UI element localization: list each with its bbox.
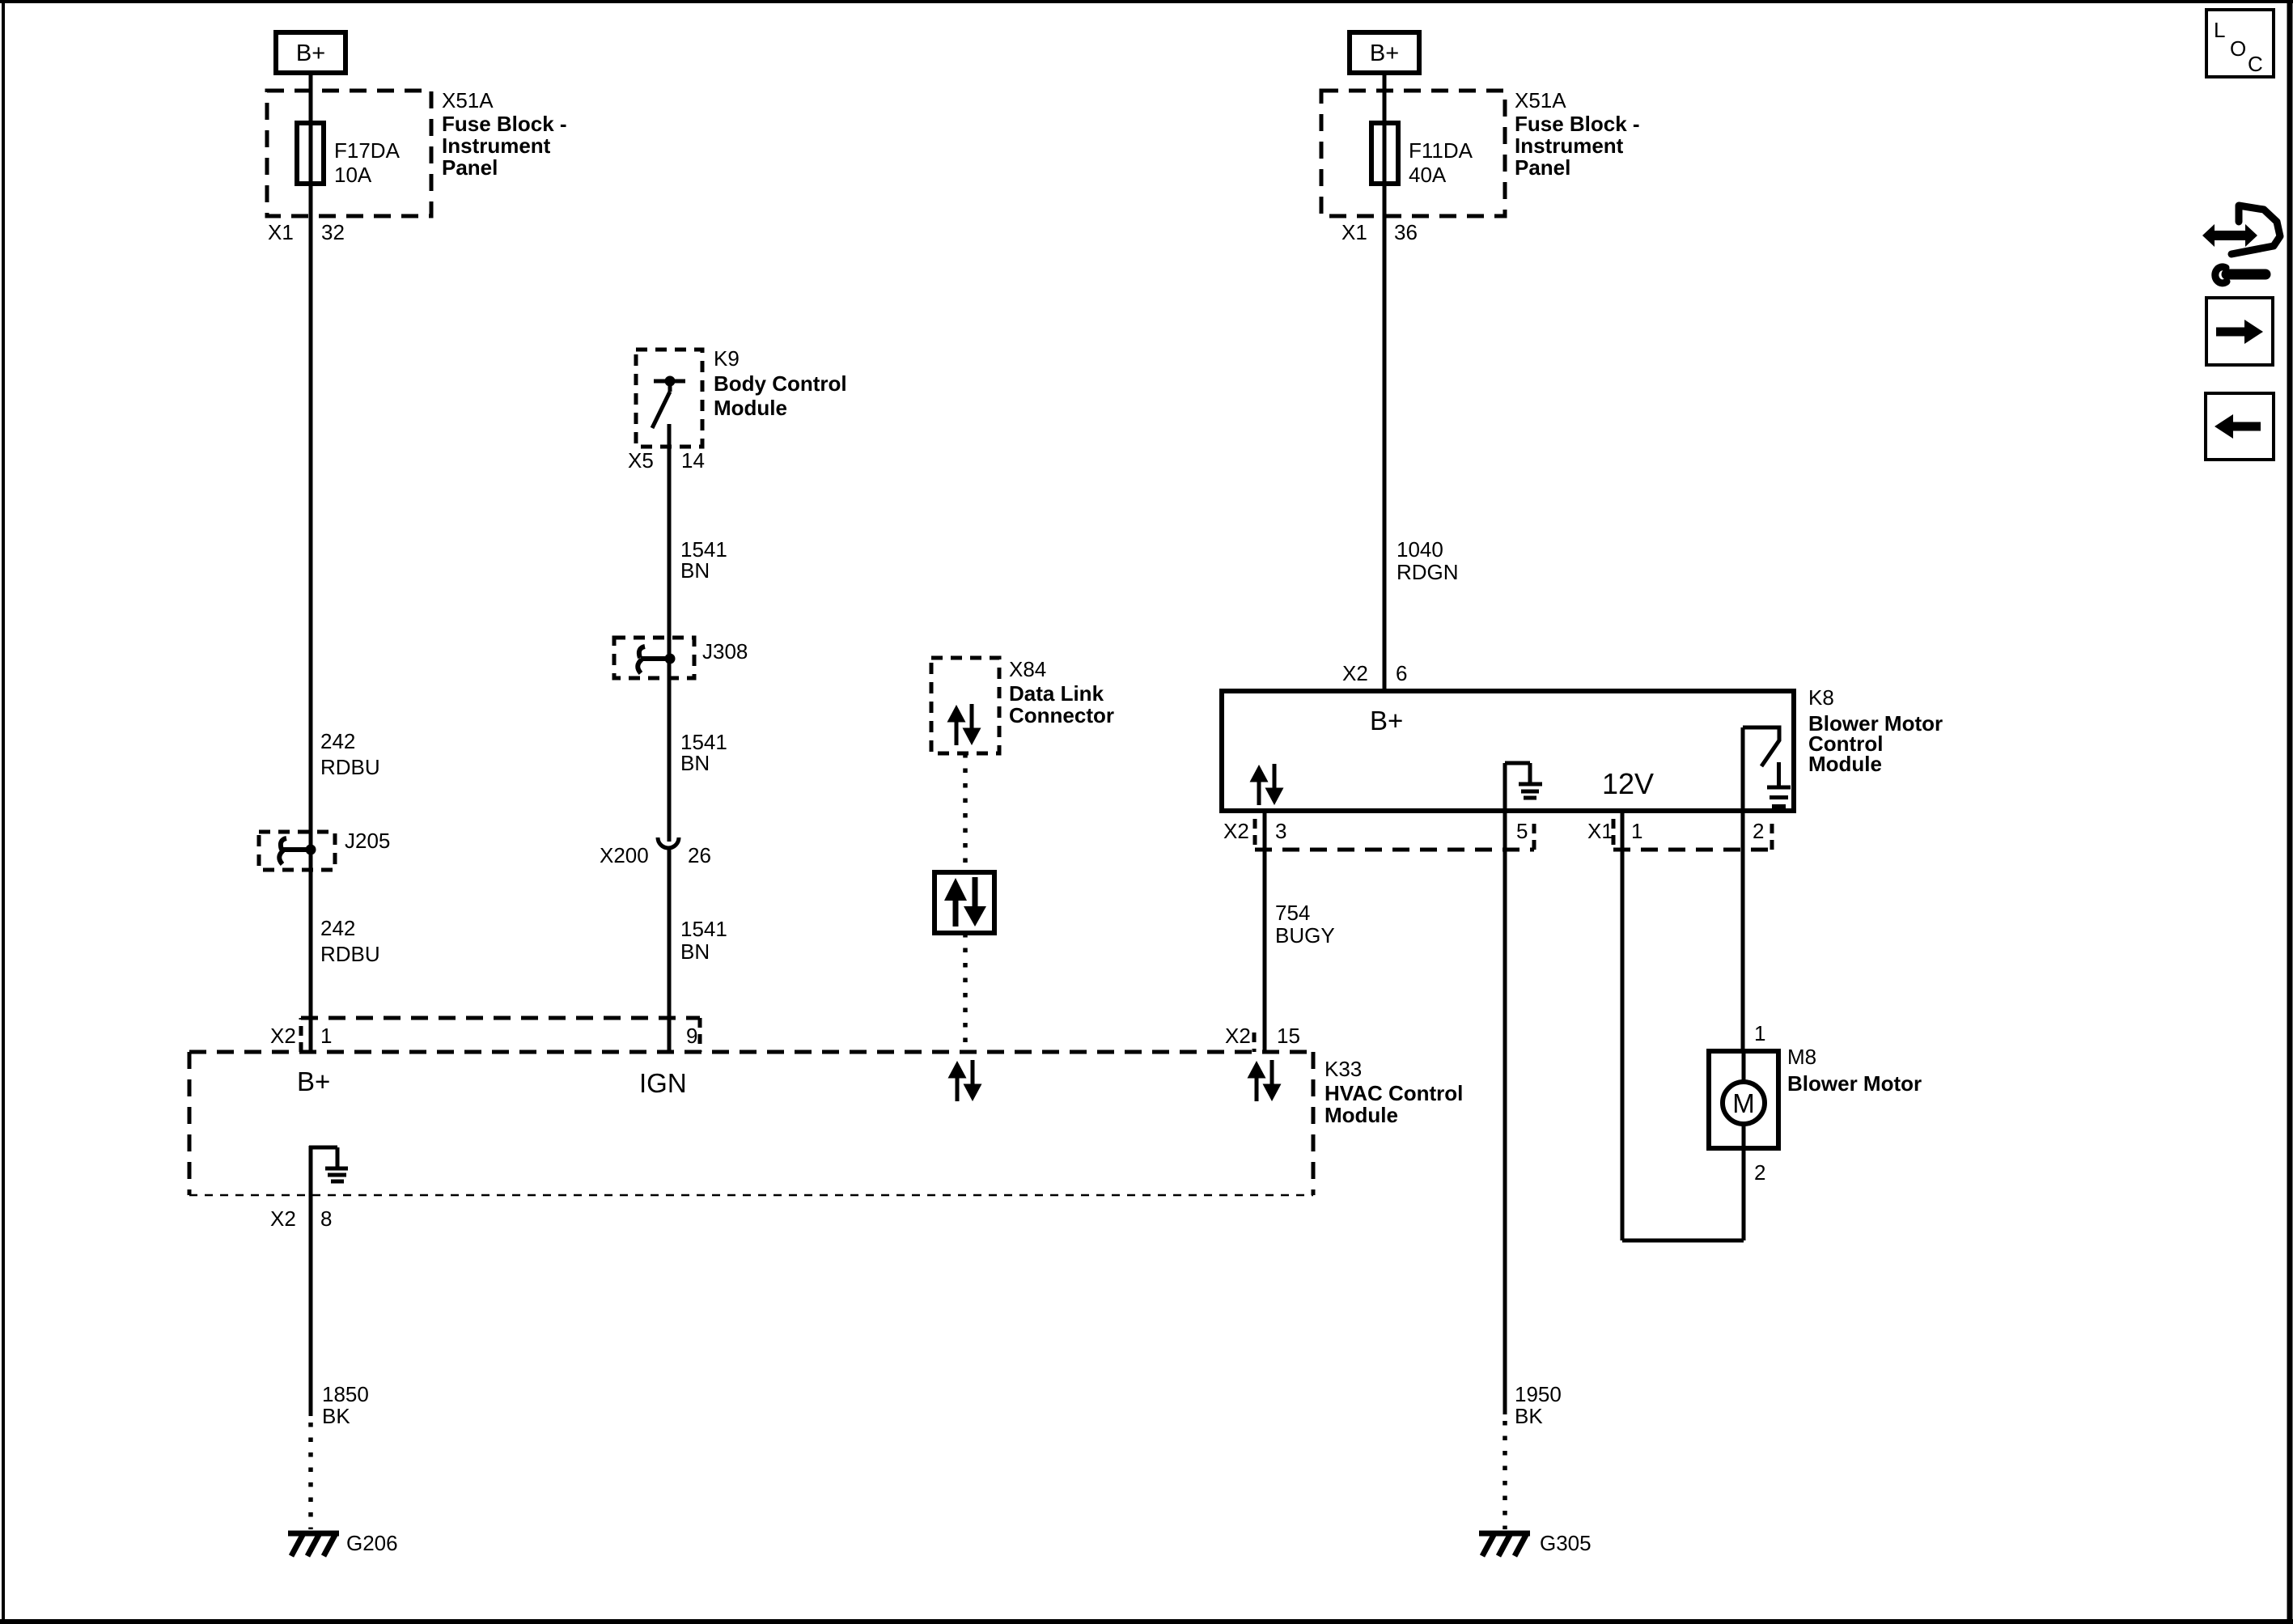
svg-text:BK: BK [1515, 1404, 1543, 1428]
svg-text:5: 5 [1516, 819, 1528, 843]
svg-text:BN: BN [680, 751, 710, 775]
pin labels under K8: X2 3 5 X1 1 2 [1223, 819, 1764, 843]
svg-text:8: 8 [320, 1206, 332, 1231]
label K8 Blower Motor Control Module [1808, 685, 1943, 776]
svg-text:242: 242 [320, 729, 355, 753]
svg-text:X1: X1 [1341, 220, 1367, 244]
connector X84 Data Link Connector dashed box [931, 658, 999, 753]
label X51A Fuse Block - Instrument Panel (right) [1515, 88, 1640, 180]
module K8 Blower Motor Control Module box [1222, 691, 1794, 811]
svg-text:X1: X1 [1587, 819, 1613, 843]
svg-text:X2: X2 [1223, 819, 1249, 843]
svg-text:9: 9 [686, 1024, 697, 1048]
svg-text:Module: Module [714, 396, 787, 420]
svg-text:2: 2 [1753, 819, 1764, 843]
twisted pair junction box with arrows [935, 872, 994, 933]
svg-text:X200: X200 [600, 843, 649, 867]
svg-text:X84: X84 [1009, 657, 1046, 681]
svg-text:Data Link: Data Link [1009, 681, 1104, 706]
svg-text:K8: K8 [1808, 685, 1834, 710]
svg-text:K9: K9 [714, 346, 740, 371]
svg-text:J308: J308 [702, 639, 748, 664]
svg-text:Fuse Block -: Fuse Block - [1515, 112, 1640, 136]
svg-text:IGN: IGN [639, 1068, 687, 1098]
svg-text:3: 3 [1275, 819, 1286, 843]
svg-text:G305: G305 [1540, 1531, 1592, 1555]
svg-text:1: 1 [320, 1024, 332, 1048]
wire: K8 pin X1-1 down and across to motor pin 2 [1622, 811, 1744, 1240]
svg-text:X2: X2 [1225, 1024, 1251, 1048]
K8 internal ground (pin 5) [1505, 763, 1542, 811]
svg-text:1: 1 [1631, 819, 1642, 843]
node: K9 switch junction dot [665, 376, 676, 387]
relay K9 Body Control Module dashed box [636, 350, 702, 447]
svg-text:1: 1 [1754, 1021, 1765, 1045]
wire: K8 pin X1-2 down to motor pin 1 [1741, 811, 1745, 1051]
label X51A Fuse Block - Instrument Panel (left) [442, 88, 567, 180]
svg-text:26: 26 [688, 843, 711, 867]
svg-text:BN: BN [680, 939, 710, 964]
X84 serial data arrows [947, 704, 981, 745]
svg-text:Instrument: Instrument [1515, 134, 1624, 158]
svg-text:F17DA: F17DA [334, 138, 401, 163]
wire: K8 pin 5 ground lead 1950 BK [1503, 811, 1507, 1414]
fuse F17DA 10A [297, 123, 324, 184]
K9 internal switch contact [652, 381, 685, 428]
ground G206 [288, 1533, 339, 1556]
svg-text:B+: B+ [296, 40, 325, 66]
svg-text:Panel: Panel [1515, 155, 1570, 180]
fuse block dashed housing X51A (left) [267, 91, 431, 216]
module K33 HVAC Control Module dashed box [189, 1052, 1313, 1195]
svg-text:X2: X2 [1342, 661, 1368, 685]
svg-text:BN: BN [680, 558, 710, 583]
LOC legend box [2206, 10, 2274, 77]
power symbol B+ terminal (right) [1350, 32, 1419, 73]
fuse F11DA 40A [1371, 123, 1398, 184]
K33 serial data arrows (left) [948, 1060, 982, 1101]
svg-text:BUGY: BUGY [1275, 923, 1335, 948]
connector bracket X2 under K8 [1255, 819, 1534, 850]
node: J308 junction dot [665, 654, 676, 664]
svg-text:X5: X5 [628, 448, 654, 473]
svg-text:1040: 1040 [1397, 537, 1443, 562]
wire: middle branch from K9 X5-14 down to K33 pin X2-9 [668, 424, 672, 842]
label K9 Body Control Module [714, 346, 847, 420]
svg-text:RDBU: RDBU [320, 942, 380, 966]
svg-text:10A: 10A [334, 163, 372, 187]
svg-text:Module: Module [1808, 752, 1882, 776]
svg-text:X2: X2 [270, 1024, 296, 1048]
svg-text:754: 754 [1275, 901, 1310, 925]
node: J205 junction dot [306, 845, 316, 855]
splice J205 dashed box [259, 832, 335, 870]
svg-text:X51A: X51A [442, 88, 494, 112]
wire: serial data dotted (box to K33) [963, 933, 968, 1052]
splice J308 dashed box [614, 638, 694, 678]
svg-text:X51A: X51A [1515, 88, 1566, 112]
splice J205 symbol [279, 838, 311, 864]
connector bracket X1 under K8 [1613, 819, 1772, 850]
label M8 Blower Motor [1787, 1045, 1922, 1096]
icon: twisted wire routing symbol [2202, 206, 2280, 283]
svg-text:K33: K33 [1325, 1057, 1362, 1081]
svg-text:B+: B+ [1370, 40, 1399, 66]
svg-text:36: 36 [1394, 220, 1418, 244]
svg-text:12V: 12V [1602, 767, 1654, 800]
wire: K33 pin X2-8 ground lead 1850 BK [309, 1195, 313, 1416]
wire: K8 pin X2-3 to K33 pin X2-15 [1263, 811, 1267, 1052]
power symbol B+ terminal (left) [276, 32, 345, 73]
svg-text:1950: 1950 [1515, 1382, 1562, 1406]
svg-text:1850: 1850 [322, 1382, 369, 1406]
svg-text:O: O [2230, 36, 2246, 61]
svg-text:32: 32 [321, 220, 345, 244]
svg-text:Panel: Panel [442, 155, 498, 180]
svg-text:L: L [2214, 18, 2225, 42]
svg-text:Blower Motor: Blower Motor [1787, 1071, 1922, 1096]
K8 internal switch to ground (pin 2) [1743, 727, 1791, 811]
splice J308 symbol [638, 647, 670, 673]
inline connector X200 pin 26 [600, 837, 711, 867]
connector bracket over K33 pins X2-1 and X2-9 [301, 1018, 700, 1052]
svg-text:6: 6 [1396, 661, 1407, 685]
icon: right arrow box [2206, 298, 2273, 365]
icon: left arrow box [2206, 393, 2274, 460]
svg-text:HVAC Control: HVAC Control [1325, 1081, 1463, 1105]
svg-text:40A: 40A [1409, 163, 1447, 187]
label X84 Data Link Connector [1009, 657, 1114, 727]
svg-text:14: 14 [681, 448, 705, 473]
svg-text:Instrument: Instrument [442, 134, 551, 158]
svg-text:M: M [1732, 1088, 1755, 1118]
svg-text:G206: G206 [346, 1531, 398, 1555]
svg-text:B+: B+ [1370, 706, 1403, 736]
svg-text:F11DA: F11DA [1409, 138, 1473, 163]
svg-text:Fuse Block -: Fuse Block - [442, 112, 567, 136]
motor M8 Blower Motor [1709, 1051, 1778, 1148]
svg-text:B+: B+ [297, 1066, 330, 1096]
wire: left B+ feed through F17DA fuse down to K33 pin X2-1 [309, 73, 313, 1052]
svg-text:X1: X1 [268, 220, 294, 244]
svg-text:M8: M8 [1787, 1045, 1816, 1069]
svg-text:RDBU: RDBU [320, 755, 380, 779]
wire: serial data dotted (X84 to twisted-pair box) [963, 753, 968, 872]
K33 serial data arrows (right) [1248, 1060, 1282, 1101]
fuse block dashed housing X51A (right) [1321, 91, 1505, 216]
svg-text:Connector: Connector [1009, 703, 1114, 727]
ground G305 [1479, 1533, 1530, 1556]
connector bracket dash at pin 15 [1252, 1032, 1257, 1052]
svg-text:2: 2 [1754, 1160, 1765, 1185]
svg-text:X2: X2 [270, 1206, 296, 1231]
svg-text:Body Control: Body Control [714, 371, 847, 396]
svg-text:J205: J205 [345, 829, 390, 853]
wire: right B+ feed through F11DA fuse down to K8 pin X2-6 [1383, 73, 1387, 691]
K33 internal ground symbol [309, 1146, 348, 1195]
svg-text:1541: 1541 [680, 917, 727, 941]
svg-text:BK: BK [322, 1404, 350, 1428]
svg-text:242: 242 [320, 916, 355, 940]
svg-text:C: C [2248, 52, 2263, 76]
label K33 HVAC Control Module [1325, 1057, 1463, 1127]
K8 serial data arrows [1250, 764, 1284, 805]
svg-text:15: 15 [1277, 1024, 1300, 1048]
svg-text:RDGN: RDGN [1397, 560, 1459, 584]
svg-text:Module: Module [1325, 1103, 1398, 1127]
